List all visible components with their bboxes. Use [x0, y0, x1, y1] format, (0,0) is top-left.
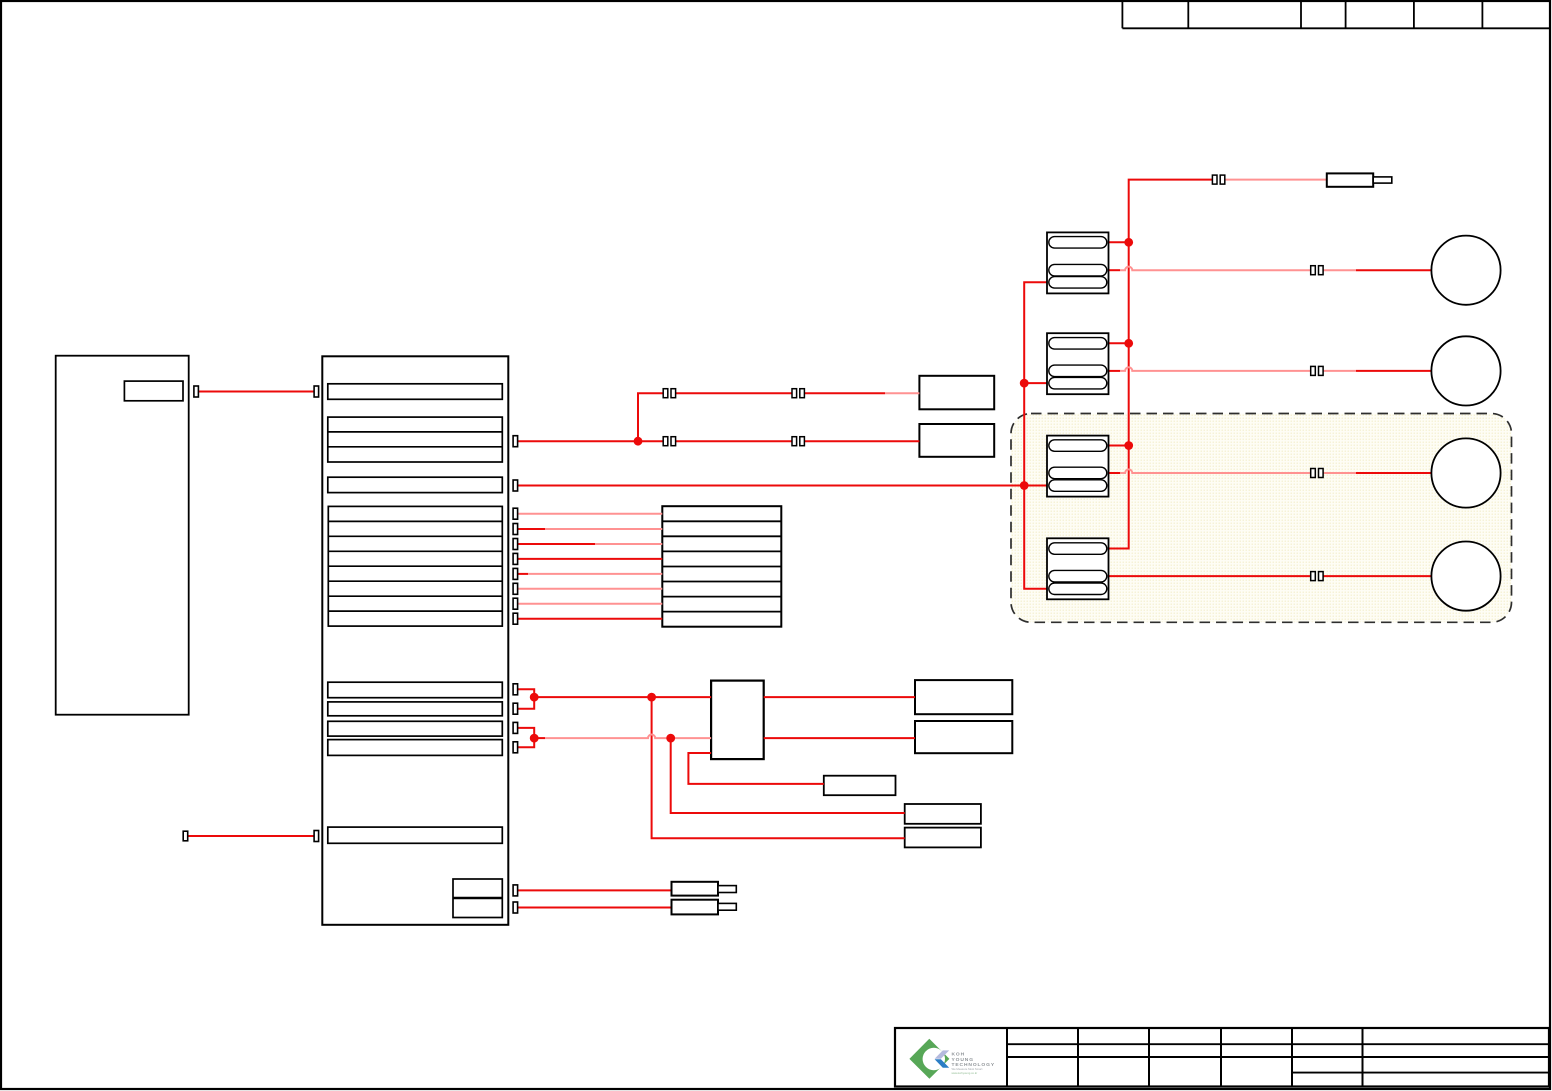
- svg-text:KOH: KOH: [952, 1052, 966, 1058]
- svg-text:www.kohyoung.co.kr: www.kohyoung.co.kr: [952, 1071, 978, 1075]
- svg-text:YOUNG: YOUNG: [952, 1057, 974, 1063]
